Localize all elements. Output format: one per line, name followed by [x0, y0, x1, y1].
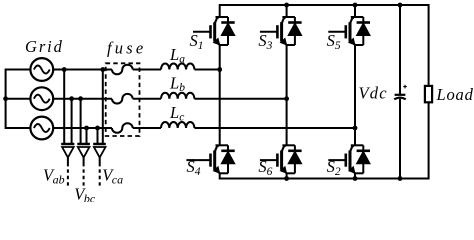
- svg-text:Lc: Lc: [169, 103, 184, 124]
- svg-text:S1: S1: [190, 31, 204, 52]
- load resistor box: [425, 86, 432, 102]
- node tap a-ca: [100, 67, 105, 72]
- capacitor Cdc wire top: [399, 5, 401, 94]
- IGBT S1: [193, 17, 235, 45]
- node tap b-ab: [69, 96, 74, 101]
- node bottom bus cap: [398, 176, 403, 181]
- leg2 vertical: [286, 5, 288, 179]
- svg-text:Vbc: Vbc: [74, 184, 96, 202]
- svg-text:Vab: Vab: [43, 166, 65, 187]
- wire tap Vca from phase a: [102, 70, 104, 145]
- inductor Lc: [161, 122, 194, 128]
- IGBT S3: [260, 17, 302, 45]
- svg-text:Lb: Lb: [169, 73, 185, 94]
- svg-text:Grid: Grid: [25, 37, 64, 56]
- inductor Lb: [161, 93, 194, 99]
- svg-text:Vca: Vca: [102, 166, 123, 187]
- node tap c-ca: [95, 126, 100, 131]
- svg-text:fuse: fuse: [107, 39, 146, 58]
- capacitor plus sign: [403, 85, 407, 89]
- probe Vca: [93, 144, 106, 187]
- svg-text:La: La: [169, 45, 185, 66]
- leg1 vertical: [219, 45, 221, 145]
- node tap c-bc: [84, 126, 89, 131]
- node top bus cap: [398, 3, 403, 8]
- capacitor Cdc: [394, 95, 406, 100]
- wire phase a: [53, 69, 220, 71]
- AC source Va: [30, 58, 53, 81]
- svg-text:S5: S5: [327, 31, 341, 52]
- wire phase c: [53, 127, 355, 129]
- wire tap Vab from phase b: [71, 99, 73, 144]
- fuse box: [106, 63, 140, 136]
- probe Vab: [61, 144, 74, 187]
- bottom DC bus: [220, 102, 429, 178]
- AC source Vc: [30, 117, 53, 140]
- wire source b left: [6, 98, 31, 100]
- node top bus leg3: [353, 3, 358, 8]
- fuse Fc: [112, 123, 133, 133]
- node tap a-ab: [62, 67, 67, 72]
- fuse Fa: [112, 65, 133, 75]
- node midpoint leg3: [353, 126, 358, 131]
- wire tap Vab from phase a: [63, 70, 65, 145]
- neutral bus wire: [6, 70, 31, 129]
- wire tap Vca from phase c: [97, 128, 99, 144]
- wire tap Vbc from phase b: [80, 99, 82, 144]
- probe Vbc: [77, 144, 90, 187]
- node top bus leg2: [284, 3, 289, 8]
- node tap b-bc: [78, 96, 83, 101]
- svg-text:S3: S3: [258, 31, 272, 52]
- IGBT S6: [260, 145, 302, 173]
- node midpoint leg2: [284, 96, 289, 101]
- AC source Vb: [30, 87, 53, 110]
- svg-text:Load: Load: [436, 85, 474, 104]
- leg3 vertical: [354, 5, 356, 179]
- fuse Fb: [112, 94, 133, 104]
- node bottom bus leg3: [353, 176, 358, 181]
- inductor La: [161, 63, 194, 69]
- wire tap Vbc from phase c: [86, 128, 88, 144]
- node midpoint leg1: [217, 67, 222, 72]
- svg-text:Vdc: Vdc: [359, 83, 388, 102]
- IGBT S5: [328, 17, 370, 45]
- wire S4 gate lead extension: [186, 159, 194, 161]
- IGBT S2: [328, 145, 370, 173]
- top DC bus: [220, 5, 429, 86]
- IGBT S4: [193, 145, 235, 173]
- node bottom bus leg2: [284, 176, 289, 181]
- node neutral junction: [3, 96, 8, 101]
- wire phase b: [53, 98, 286, 100]
- capacitor Cdc wire bottom: [399, 99, 401, 179]
